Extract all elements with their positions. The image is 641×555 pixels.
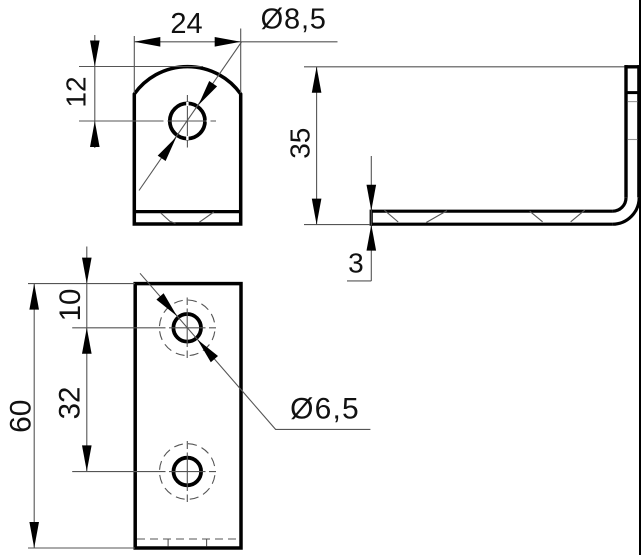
dim 24 extension left <box>133 36 135 93</box>
svg-text:35: 35 <box>284 128 315 159</box>
top view bend tick right <box>206 540 208 547</box>
dim 24 arrow right <box>215 37 241 47</box>
dim 60 extension top <box>28 283 135 285</box>
side hidden hole line bottom <box>628 139 638 141</box>
dim 12 arrow bottom <box>90 121 100 147</box>
side horizontal leg top edge <box>371 210 612 213</box>
side bend outer arc <box>612 197 639 224</box>
hole 1 center extension line <box>72 327 216 329</box>
dim 24 line + d8.5 leader shelf <box>134 41 337 43</box>
d6.5 arrow upper <box>156 293 177 316</box>
front bend line <box>134 210 240 213</box>
side leg end cap <box>370 210 373 226</box>
svg-text:3: 3 <box>348 248 364 279</box>
dim 12 arrow top <box>90 41 100 67</box>
dim 60 arrow top <box>29 284 39 310</box>
d8.5 arrow lower <box>158 137 177 161</box>
side bend mark 1 <box>384 210 398 222</box>
dim 3 shelf <box>347 280 371 282</box>
side hidden hole line top <box>628 101 638 103</box>
svg-text:10: 10 <box>54 289 87 322</box>
dim 10 arrow top (outside) <box>82 258 92 284</box>
svg-text:Ø8,5: Ø8,5 <box>261 3 327 35</box>
dim 12 extension top <box>79 66 203 68</box>
front bend mark left <box>161 213 176 224</box>
side top extension line <box>304 66 625 68</box>
dim 24 arrow left <box>134 37 160 47</box>
top view bend tick left <box>167 540 169 547</box>
hole front crosshair vertical <box>186 95 188 148</box>
side bend mark 4 <box>571 210 585 222</box>
dim 60 arrow bottom <box>29 522 39 548</box>
svg-text:24: 24 <box>170 8 202 40</box>
hole front (d8.5) <box>170 103 205 138</box>
dim 60 extension bottom <box>28 547 135 549</box>
side horizontal leg bottom edge <box>371 223 612 226</box>
dim 24 extension right <box>240 29 242 94</box>
hole 2 center extension line <box>72 471 216 473</box>
side bend inner arc <box>613 198 626 211</box>
side leg right edge <box>637 65 640 197</box>
dim 35 bottom extension <box>304 224 370 226</box>
side leg left edge <box>624 65 627 198</box>
dim 35 arrow bottom <box>312 199 322 225</box>
svg-text:Ø6,5: Ø6,5 <box>290 392 360 425</box>
drawing frame right border <box>639 0 641 555</box>
dim 3 arrow top <box>367 185 377 211</box>
hole 1 dashed circle <box>159 300 215 356</box>
dim 10/32 line <box>86 247 88 472</box>
side bend mark 3 <box>530 211 543 222</box>
hole 2 (d6.5) <box>174 458 202 486</box>
svg-text:32: 32 <box>53 387 86 420</box>
dim 10/32 arrow middle <box>82 328 92 354</box>
side bend mark 2 <box>426 211 447 223</box>
hole front crosshair horizontal <box>79 120 216 122</box>
hole 1 crosshair vertical <box>186 298 188 359</box>
dim 35 arrow top <box>312 67 322 93</box>
dim 12 line <box>94 35 96 148</box>
front bend mark right <box>199 212 214 222</box>
top view plate outline <box>135 284 241 548</box>
hole 2 dashed circle <box>160 444 216 500</box>
d6.5 leader diagonal <box>140 273 370 429</box>
d8.5 arrow upper <box>198 81 217 105</box>
svg-text:60: 60 <box>4 400 37 433</box>
dim 35 line <box>316 67 318 225</box>
dim 32 arrow bottom <box>82 445 92 471</box>
dim 3 arrow bottom <box>367 225 377 251</box>
hole 2 crosshair vertical <box>186 441 188 502</box>
top view dashed bend line <box>137 538 240 540</box>
hole 1 (d6.5) <box>173 314 201 342</box>
d6.5 arrow lower <box>197 340 218 363</box>
dim 3 line <box>370 156 372 281</box>
svg-text:12: 12 <box>61 76 92 107</box>
front view outline <box>134 67 240 224</box>
side tangent edge tick <box>626 91 639 94</box>
side leg top cap <box>625 65 641 68</box>
dim 60 line <box>33 284 35 548</box>
d8.5 leader diagonal <box>139 42 242 191</box>
